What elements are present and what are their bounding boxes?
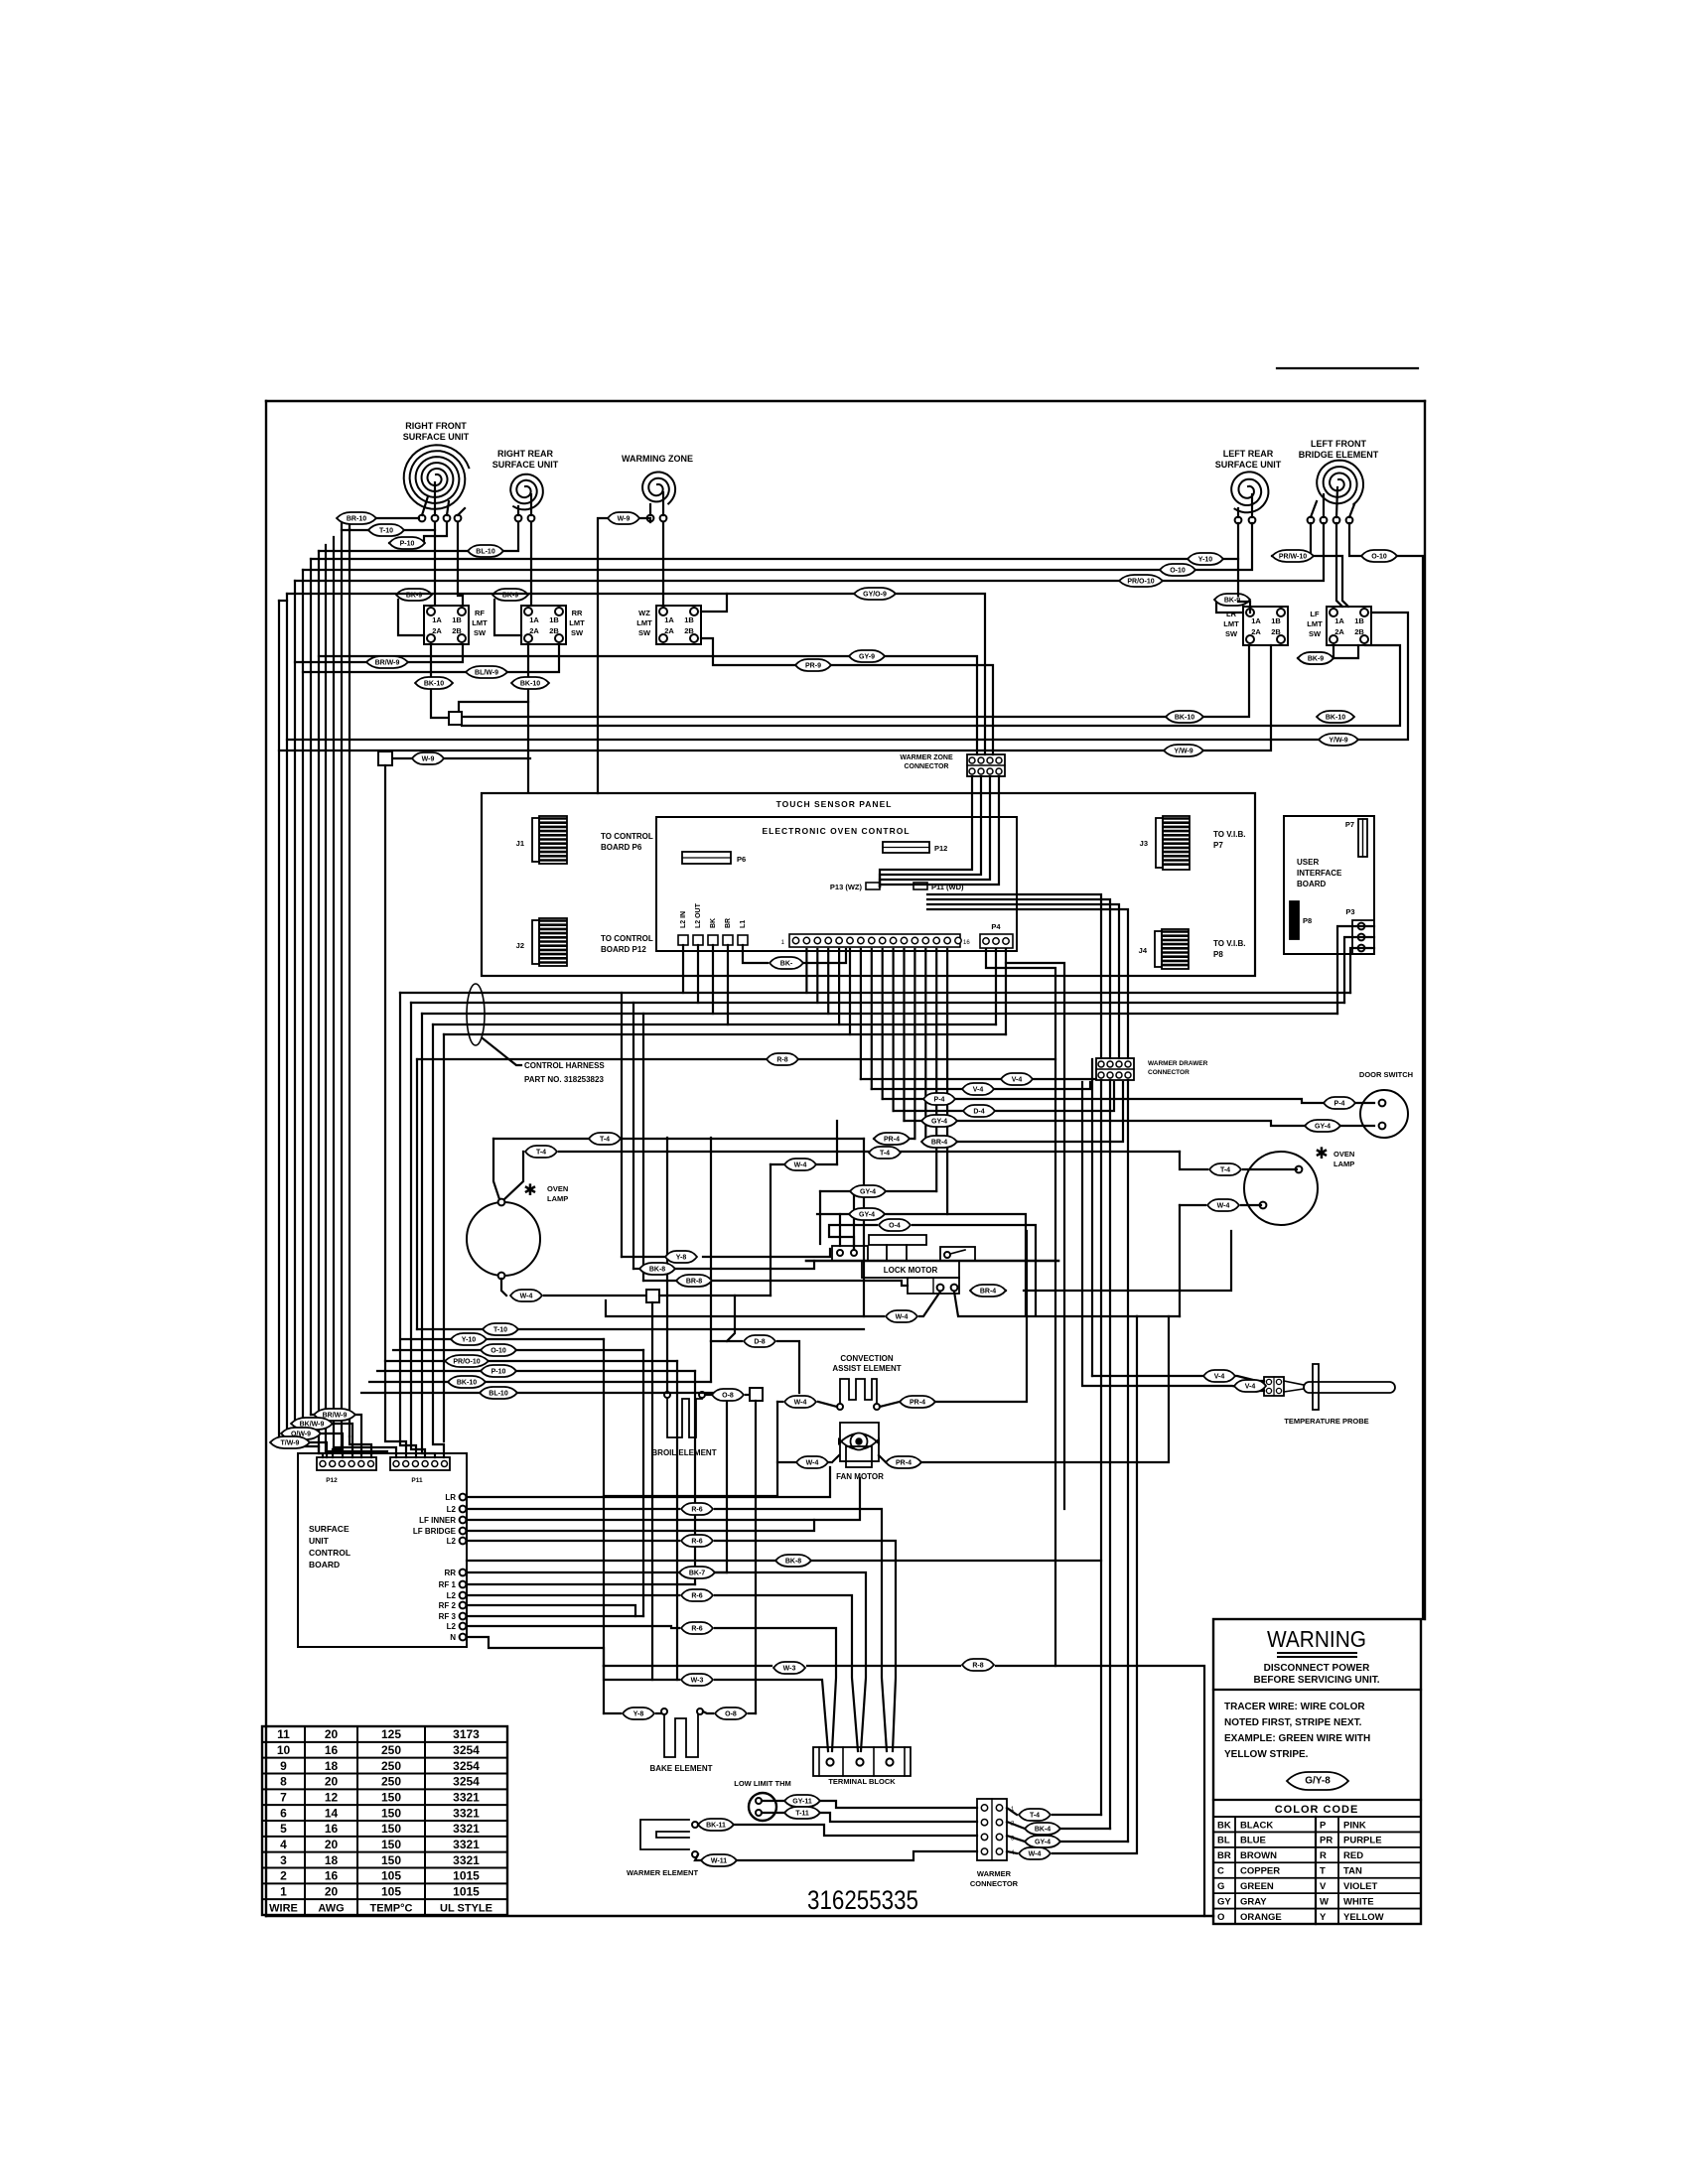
wire D-8 drop link bbox=[727, 1296, 735, 1341]
wire label R-6 bbox=[681, 1622, 713, 1634]
svg-text:1B: 1B bbox=[1354, 616, 1364, 625]
wire lamp1 bottom W-4 bbox=[501, 1279, 506, 1296]
svg-text:G: G bbox=[1217, 1881, 1224, 1892]
svg-text:Y-10: Y-10 bbox=[462, 1337, 477, 1344]
svg-text:BOARD: BOARD bbox=[309, 1560, 340, 1570]
wire BK- to pin row bbox=[801, 949, 846, 963]
svg-text:20: 20 bbox=[325, 1838, 339, 1851]
svg-text:BR/W-9: BR/W-9 bbox=[375, 660, 400, 667]
svg-text:GY-4: GY-4 bbox=[1315, 1124, 1331, 1131]
svg-text:SW: SW bbox=[1309, 629, 1322, 638]
wire GY-4 a to switch bbox=[853, 1191, 855, 1249]
svg-text:P7: P7 bbox=[1345, 820, 1354, 829]
svg-text:BK: BK bbox=[1217, 1820, 1231, 1831]
user interface board box bbox=[1284, 816, 1374, 954]
wire left bundle v3 bbox=[333, 537, 335, 1447]
wire BK-10 long run bbox=[462, 645, 1249, 717]
wire bus4 left drop bbox=[433, 1024, 444, 1457]
wire pin row drop 2 bbox=[816, 949, 818, 1003]
wire warmer BK-4 right bbox=[1060, 1828, 1110, 1830]
svg-text:SW: SW bbox=[571, 628, 584, 637]
wire label T-4 bbox=[525, 1146, 557, 1158]
warmer zone connector bbox=[967, 754, 1005, 776]
wire label Y-8 bbox=[623, 1707, 654, 1719]
wire label PR/O-10 bbox=[1119, 575, 1163, 587]
wire O-10 right run bbox=[1349, 523, 1361, 556]
svg-text:Y-8: Y-8 bbox=[633, 1711, 644, 1718]
svg-text:Y/W-9: Y/W-9 bbox=[1329, 738, 1347, 745]
svg-text:P4: P4 bbox=[991, 922, 1001, 931]
wire Y-8 bake vertical bbox=[603, 1666, 605, 1713]
wire P4 drop 3 bbox=[986, 949, 1055, 1666]
svg-text:RF 3: RF 3 bbox=[439, 1612, 457, 1621]
svg-text:T-4: T-4 bbox=[880, 1151, 890, 1158]
wire label O-10 bbox=[1160, 564, 1195, 576]
connector P3 on UIB bbox=[1345, 907, 1374, 954]
wire W-4 lock diag2 bbox=[954, 1292, 1137, 1316]
svg-text:GY-4: GY-4 bbox=[1035, 1840, 1051, 1846]
svg-text:P8: P8 bbox=[1303, 916, 1312, 925]
svg-text:Y/W-9: Y/W-9 bbox=[1174, 749, 1193, 755]
wire RR BK-7 ext bbox=[713, 1571, 727, 1573]
svg-text:GY-11: GY-11 bbox=[792, 1799, 812, 1806]
wire label Y-10 bbox=[1188, 553, 1223, 565]
wire label GY/O-9 bbox=[854, 588, 896, 600]
wire L2 R-6 run 4 bbox=[467, 1626, 679, 1628]
svg-text:250: 250 bbox=[381, 1775, 401, 1789]
wire label BR-10 bbox=[337, 512, 376, 524]
svg-text:R-6: R-6 bbox=[691, 1539, 702, 1546]
heating element LEFT FRONT BRIDGE ELEMENT coil bbox=[1299, 439, 1379, 523]
wire LF BRIDGE pin run bbox=[467, 1520, 814, 1531]
wire LF BK-9 loop bbox=[1298, 645, 1333, 658]
wire label D-4 bbox=[963, 1105, 995, 1117]
wire BK-8 right bbox=[676, 1261, 814, 1269]
svg-text:16: 16 bbox=[963, 940, 970, 946]
wire label W-4 bbox=[510, 1290, 542, 1301]
wire label GY-11 bbox=[784, 1795, 820, 1807]
warmer connector bbox=[977, 1799, 1015, 1860]
svg-text:P7: P7 bbox=[1213, 841, 1223, 850]
wire R-6 run 3 right bbox=[715, 1595, 858, 1751]
wire T-4 line 1 right bbox=[621, 1138, 864, 1140]
wire label BK-10 bbox=[1317, 711, 1354, 723]
wire W-9 lower run bbox=[392, 757, 530, 759]
svg-text:RR: RR bbox=[444, 1569, 456, 1577]
wire label GY-9 bbox=[849, 650, 885, 662]
wire label W-9 bbox=[608, 512, 639, 524]
wire GY-4 a left drop bbox=[819, 1191, 821, 1244]
wire T-4 line 2 bbox=[559, 1151, 1180, 1153]
wire P11WD out 1 bbox=[927, 894, 1101, 1058]
wire right bundle BK-4 up bbox=[1109, 1080, 1111, 1829]
wire D-8 line left bbox=[711, 1340, 742, 1342]
wire warmer T-4 bbox=[1007, 1808, 1017, 1815]
wire label BL-10 bbox=[468, 545, 503, 557]
wire O-10 stack r bbox=[516, 1349, 643, 1351]
wire pin row drop 13 bbox=[935, 949, 937, 1191]
svg-text:R-8: R-8 bbox=[972, 1663, 983, 1670]
svg-text:G/Y-8: G/Y-8 bbox=[1305, 1776, 1331, 1787]
svg-text:EXAMPLE: GREEN WIRE WITH: EXAMPLE: GREEN WIRE WITH bbox=[1224, 1733, 1370, 1744]
wire label O-4 bbox=[879, 1219, 911, 1231]
junction square A bbox=[449, 712, 462, 725]
svg-text:P3: P3 bbox=[1345, 907, 1354, 916]
svg-text:CONNECTOR: CONNECTOR bbox=[905, 763, 949, 770]
wire pad drop L2IN bbox=[682, 945, 684, 993]
svg-text:18: 18 bbox=[325, 1853, 339, 1867]
wire bus1 left drop bbox=[400, 993, 416, 1457]
wire bus4 bbox=[433, 1024, 996, 1025]
svg-text:W-4: W-4 bbox=[794, 1400, 807, 1407]
wire fan PR-4 right bbox=[921, 1316, 1169, 1462]
junction square D bbox=[646, 1290, 659, 1302]
svg-text:WARMER ZONE: WARMER ZONE bbox=[900, 754, 953, 761]
svg-text:PR/O-10: PR/O-10 bbox=[1127, 579, 1154, 586]
wire BL-10 stack bbox=[361, 1392, 481, 1394]
wire R-8 mid run bbox=[417, 1058, 1055, 1060]
wire PR/O-10 stack bbox=[385, 1360, 445, 1362]
svg-text:PINK: PINK bbox=[1343, 1820, 1366, 1831]
svg-text:BL/W-9: BL/W-9 bbox=[475, 670, 498, 677]
wire T-4 lamp1 funnel b bbox=[504, 1152, 523, 1199]
wire label BK-10 bbox=[415, 677, 453, 689]
wire low limit T-11 bbox=[762, 1812, 784, 1814]
wire label BL-10 bbox=[480, 1387, 517, 1399]
svg-text:P12: P12 bbox=[326, 1477, 338, 1484]
wire bundle top v1 bbox=[350, 518, 374, 529]
svg-text:W-9: W-9 bbox=[422, 756, 435, 763]
svg-text:150: 150 bbox=[381, 1838, 401, 1851]
wire O-8 broil bbox=[705, 1394, 711, 1396]
svg-text:BLACK: BLACK bbox=[1240, 1820, 1273, 1831]
wire pad drop BR bbox=[727, 945, 729, 1024]
connector J1 bbox=[532, 816, 567, 864]
wire label W-4 bbox=[886, 1310, 917, 1322]
wire junction B down bbox=[385, 765, 406, 1457]
wire T-4 lamp2 bbox=[1180, 1152, 1207, 1169]
svg-text:SURFACE UNIT: SURFACE UNIT bbox=[492, 460, 559, 470]
svg-text:W-4: W-4 bbox=[1029, 1851, 1042, 1858]
svg-text:L2: L2 bbox=[447, 1537, 457, 1546]
wire BL-10 stack r bbox=[516, 1392, 727, 1394]
oven lamp right bbox=[1244, 1146, 1354, 1225]
wire label BK-9 bbox=[1298, 652, 1333, 664]
wire warmer T-4 right bbox=[1052, 1814, 1101, 1816]
wire right mid vertical 1188 bbox=[1179, 1205, 1181, 1316]
wire label O/W-9 bbox=[281, 1428, 321, 1439]
wire warmer W-4 bbox=[1007, 1851, 1017, 1853]
temperature probe bbox=[1264, 1364, 1395, 1426]
wire P4 drop 2 bbox=[1005, 949, 1007, 1034]
wire BK-10 RR to junction bbox=[459, 702, 528, 712]
svg-text:GY: GY bbox=[1217, 1896, 1231, 1907]
wire pin row drop 11 bbox=[913, 949, 915, 1139]
wire W-4 mid vertical up bbox=[836, 1121, 838, 1164]
svg-text:2B: 2B bbox=[684, 626, 694, 635]
wire label Y/W-9 bbox=[1319, 734, 1358, 746]
wire label P-4 bbox=[923, 1093, 955, 1105]
wire label O-10 bbox=[481, 1344, 516, 1356]
wire left bundle v8 bbox=[294, 581, 296, 1433]
wire P11WD out 3 bbox=[927, 904, 1119, 1058]
wire label Y-8 bbox=[665, 1251, 697, 1263]
wire V-4 probe line 2 bbox=[1082, 1082, 1264, 1391]
wire label BK-9 bbox=[1214, 594, 1250, 606]
wire WZ terminal2 down bbox=[662, 522, 664, 606]
wire W-4 lamp2 to lamp bbox=[1241, 1204, 1261, 1206]
svg-text:RIGHT FRONT: RIGHT FRONT bbox=[405, 421, 467, 431]
wire T-4 mid down bbox=[863, 1139, 865, 1316]
svg-text:ELECTRONIC OVEN CONTROL: ELECTRONIC OVEN CONTROL bbox=[762, 826, 910, 836]
svg-text:9: 9 bbox=[280, 1759, 287, 1773]
svg-text:J1: J1 bbox=[516, 839, 524, 848]
svg-text:R-6: R-6 bbox=[691, 1507, 702, 1514]
wire label GY-4 bbox=[1305, 1120, 1340, 1132]
svg-text:20: 20 bbox=[325, 1884, 339, 1898]
wire label R-8 bbox=[962, 1659, 994, 1671]
svg-text:16: 16 bbox=[325, 1743, 339, 1757]
svg-text:PR/W-10: PR/W-10 bbox=[1279, 554, 1307, 561]
svg-text:P-10: P-10 bbox=[400, 541, 415, 548]
warning box bbox=[1213, 1619, 1421, 1924]
wire bus2 bbox=[411, 1002, 1344, 1004]
wire W-3 R-8 long run bbox=[604, 1665, 772, 1667]
svg-text:BK-9: BK-9 bbox=[1308, 656, 1324, 663]
svg-text:P-4: P-4 bbox=[934, 1097, 945, 1104]
wire Y-10 run bbox=[311, 523, 1238, 559]
svg-text:LMT: LMT bbox=[636, 618, 652, 627]
wire loop BK-9 to RR switch bbox=[494, 600, 521, 635]
wire Y-8 bake bbox=[656, 1712, 661, 1714]
svg-text:TEMP°C: TEMP°C bbox=[370, 1902, 413, 1914]
svg-text:14: 14 bbox=[325, 1806, 339, 1820]
svg-text:1A: 1A bbox=[432, 615, 442, 624]
wire label P-10 bbox=[481, 1365, 516, 1377]
wire label P-4 bbox=[1324, 1097, 1355, 1109]
wire W-4 mid vertical down bbox=[770, 1164, 772, 1296]
wire pin row drop 7 bbox=[871, 949, 873, 1089]
wire label T-10 bbox=[483, 1323, 518, 1335]
svg-text:W-4: W-4 bbox=[806, 1460, 819, 1467]
wire bundle v10 top bbox=[279, 600, 287, 602]
svg-text:CONNECTOR: CONNECTOR bbox=[970, 1879, 1019, 1888]
svg-text:PURPLE: PURPLE bbox=[1343, 1836, 1382, 1846]
wire T-10 run bbox=[368, 529, 435, 531]
EOC bottom pads with rotated labels bbox=[678, 902, 748, 945]
color code table bbox=[1213, 1800, 1421, 1924]
wire label PR-4 bbox=[900, 1396, 935, 1408]
svg-text:2A: 2A bbox=[1334, 627, 1344, 636]
wire O-10 border drop bbox=[1397, 556, 1423, 1619]
wire fan PR-4 bbox=[879, 1455, 886, 1462]
wire pin row drop 4 bbox=[838, 949, 840, 1024]
wire pin row drop 9 bbox=[892, 949, 894, 1111]
wire label PR-4 bbox=[886, 1456, 921, 1468]
wire left bundle v4 bbox=[325, 545, 327, 1451]
wire P11WD out 4 bbox=[927, 909, 1128, 1058]
wire fan W-4 to motor bbox=[832, 1455, 839, 1462]
wire BK-11 left bbox=[698, 1824, 702, 1826]
wire T-11 right bbox=[820, 1813, 977, 1822]
wire BR-10 RF terminal 1 bbox=[339, 517, 419, 519]
svg-text:L2: L2 bbox=[447, 1505, 457, 1514]
wire PR-9 run bbox=[701, 638, 993, 754]
wire junction D down bbox=[651, 1302, 653, 1680]
svg-text:PART NO. 318253823: PART NO. 318253823 bbox=[524, 1075, 604, 1084]
svg-text:UNIT: UNIT bbox=[309, 1536, 330, 1546]
svg-text:LR: LR bbox=[445, 1493, 456, 1502]
wire pin row drop 12 bbox=[924, 949, 926, 1142]
svg-text:BK-4: BK-4 bbox=[1035, 1827, 1051, 1834]
wire label W-11 bbox=[701, 1854, 737, 1866]
wire WZ connector drop 3 bbox=[880, 776, 990, 887]
svg-text:BRIDGE ELEMENT: BRIDGE ELEMENT bbox=[1299, 450, 1379, 460]
svg-text:T-11: T-11 bbox=[795, 1811, 809, 1818]
svg-text:PR-4: PR-4 bbox=[910, 1400, 925, 1407]
wire label W-4 bbox=[1207, 1199, 1239, 1211]
wire T-10 RF terminal 2 down bbox=[434, 522, 436, 606]
svg-text:O-4: O-4 bbox=[889, 1223, 901, 1230]
svg-text:RF 2: RF 2 bbox=[439, 1601, 457, 1610]
svg-text:V-4: V-4 bbox=[1214, 1374, 1225, 1381]
fan motor bbox=[836, 1423, 884, 1481]
svg-text:LAMP: LAMP bbox=[547, 1194, 568, 1203]
svg-text:1015: 1015 bbox=[453, 1869, 480, 1883]
svg-text:Y-8: Y-8 bbox=[676, 1255, 687, 1262]
svg-text:RIGHT REAR: RIGHT REAR bbox=[497, 449, 554, 459]
svg-text:2: 2 bbox=[280, 1869, 287, 1883]
svg-text:2B: 2B bbox=[1354, 627, 1364, 636]
wire label T-4 bbox=[869, 1147, 901, 1159]
svg-text:2B: 2B bbox=[549, 626, 559, 635]
wire left bundle v5 bbox=[318, 551, 320, 1446]
wire label GY-4 bbox=[1025, 1836, 1060, 1847]
svg-text:3321: 3321 bbox=[453, 1838, 480, 1851]
svg-text:LAMP: LAMP bbox=[1333, 1160, 1354, 1168]
wire P3 link 1 bbox=[1350, 948, 1374, 993]
wire BK-10 stack bbox=[369, 1381, 449, 1383]
wire O-4 line bbox=[829, 1225, 877, 1249]
surface unit control board box bbox=[298, 1453, 467, 1647]
svg-text:W-4: W-4 bbox=[520, 1294, 533, 1300]
svg-text:C: C bbox=[1217, 1866, 1224, 1877]
wire bus5 bbox=[444, 1033, 1006, 1035]
wire BL/W-9 run bbox=[303, 644, 559, 672]
svg-text:W-9: W-9 bbox=[618, 516, 631, 523]
wire label W-9 bbox=[412, 752, 444, 764]
wire BK-10 run to LF bbox=[462, 645, 1400, 726]
svg-text:BK-: BK- bbox=[780, 961, 793, 968]
svg-text:Y-10: Y-10 bbox=[1198, 557, 1213, 564]
wire O-10 run bbox=[303, 523, 1252, 570]
svg-text:SURFACE UNIT: SURFACE UNIT bbox=[403, 432, 470, 442]
svg-text:1B: 1B bbox=[549, 615, 559, 624]
wire BR/W-9 bend bbox=[311, 1415, 361, 1457]
wire BK-10 stack r bbox=[485, 1381, 711, 1383]
wire BK-8 line bbox=[633, 1268, 641, 1270]
wire PR/O-10 run bbox=[295, 523, 1324, 581]
svg-text:GY-4: GY-4 bbox=[859, 1212, 875, 1219]
junction square B bbox=[378, 751, 392, 765]
wire left bundle v1 bbox=[349, 529, 351, 1436]
svg-text:LR: LR bbox=[1226, 610, 1237, 618]
wire left bundle v6 bbox=[310, 559, 312, 1415]
svg-text:OVEN: OVEN bbox=[547, 1184, 568, 1193]
wire label Y-10 bbox=[451, 1333, 487, 1345]
svg-text:T-4: T-4 bbox=[1220, 1167, 1230, 1174]
svg-text:WARMER DRAWER: WARMER DRAWER bbox=[1148, 1060, 1208, 1067]
wire R-6 run 4 right bbox=[715, 1628, 836, 1751]
wire pin row drop 6 bbox=[860, 949, 862, 1079]
lock motor assembly bbox=[806, 1235, 1058, 1294]
wire BR-8 line bbox=[643, 1280, 675, 1282]
svg-text:VIOLET: VIOLET bbox=[1343, 1881, 1378, 1892]
svg-text:1B: 1B bbox=[1271, 616, 1281, 625]
svg-text:3321: 3321 bbox=[453, 1790, 480, 1804]
wire conv left vertical bbox=[604, 1402, 777, 1496]
wire warmer BK-4 bbox=[1007, 1822, 1025, 1829]
wire right bundle T-4 up bbox=[1100, 1080, 1102, 1815]
wire bundle to P12 c bbox=[350, 1436, 371, 1457]
limit switch LR LMT SW bbox=[1223, 607, 1288, 645]
svg-text:CONTROL: CONTROL bbox=[309, 1548, 351, 1558]
limit switch WZ LMT SW bbox=[636, 606, 701, 644]
svg-text:BL-10: BL-10 bbox=[476, 549, 495, 556]
limit switch RF LMT SW bbox=[424, 606, 488, 644]
wire Y/W-9 run upper bbox=[287, 613, 1408, 740]
svg-text:LF: LF bbox=[1310, 610, 1320, 618]
wire WZ 1B right bbox=[701, 594, 727, 612]
svg-text:LOW LIMIT THM: LOW LIMIT THM bbox=[734, 1779, 790, 1788]
wire stack drop 682 bbox=[676, 1361, 678, 1680]
page border frame bbox=[266, 400, 1425, 402]
svg-text:ASSIST ELEMENT: ASSIST ELEMENT bbox=[832, 1364, 901, 1373]
svg-text:GY-9: GY-9 bbox=[859, 654, 875, 661]
wire low limit GY-11 bbox=[762, 1800, 784, 1802]
svg-text:D-8: D-8 bbox=[754, 1339, 765, 1346]
wire label R-6 bbox=[681, 1589, 713, 1601]
svg-text:BOARD: BOARD bbox=[1297, 880, 1327, 888]
wire label BK-10 bbox=[511, 677, 549, 689]
wire bundle top v2 bbox=[342, 529, 368, 531]
svg-text:TO V.I.B.: TO V.I.B. bbox=[1213, 830, 1245, 839]
svg-text:BAKE ELEMENT: BAKE ELEMENT bbox=[649, 1764, 712, 1773]
wire bundle to P11 a bbox=[334, 1447, 396, 1457]
svg-text:105: 105 bbox=[381, 1869, 401, 1883]
wire label V-4 bbox=[1001, 1073, 1033, 1085]
svg-text:3321: 3321 bbox=[453, 1822, 480, 1836]
svg-text:BOARD P6: BOARD P6 bbox=[601, 843, 642, 852]
svg-text:BR-4: BR-4 bbox=[980, 1289, 996, 1296]
svg-text:3173: 3173 bbox=[453, 1727, 480, 1741]
svg-text:LOCK MOTOR: LOCK MOTOR bbox=[884, 1266, 938, 1275]
svg-text:COPPER: COPPER bbox=[1240, 1866, 1280, 1877]
wire label O-8 bbox=[712, 1389, 744, 1401]
wire label R-6 bbox=[681, 1503, 713, 1515]
wire label BK-8 bbox=[775, 1555, 811, 1567]
wire label W-4 bbox=[796, 1456, 828, 1468]
svg-text:8: 8 bbox=[280, 1775, 287, 1789]
wire label T-4 bbox=[589, 1133, 621, 1145]
svg-text:WIRE: WIRE bbox=[269, 1902, 298, 1914]
wire label BR-8 bbox=[676, 1275, 712, 1287]
wire label PR-9 bbox=[795, 659, 831, 671]
svg-text:L2 IN: L2 IN bbox=[680, 911, 687, 928]
svg-text:CONNECTOR: CONNECTOR bbox=[1148, 1069, 1190, 1076]
wire label W-3 bbox=[773, 1662, 805, 1674]
wire pad drop L2OUT bbox=[697, 945, 699, 1003]
